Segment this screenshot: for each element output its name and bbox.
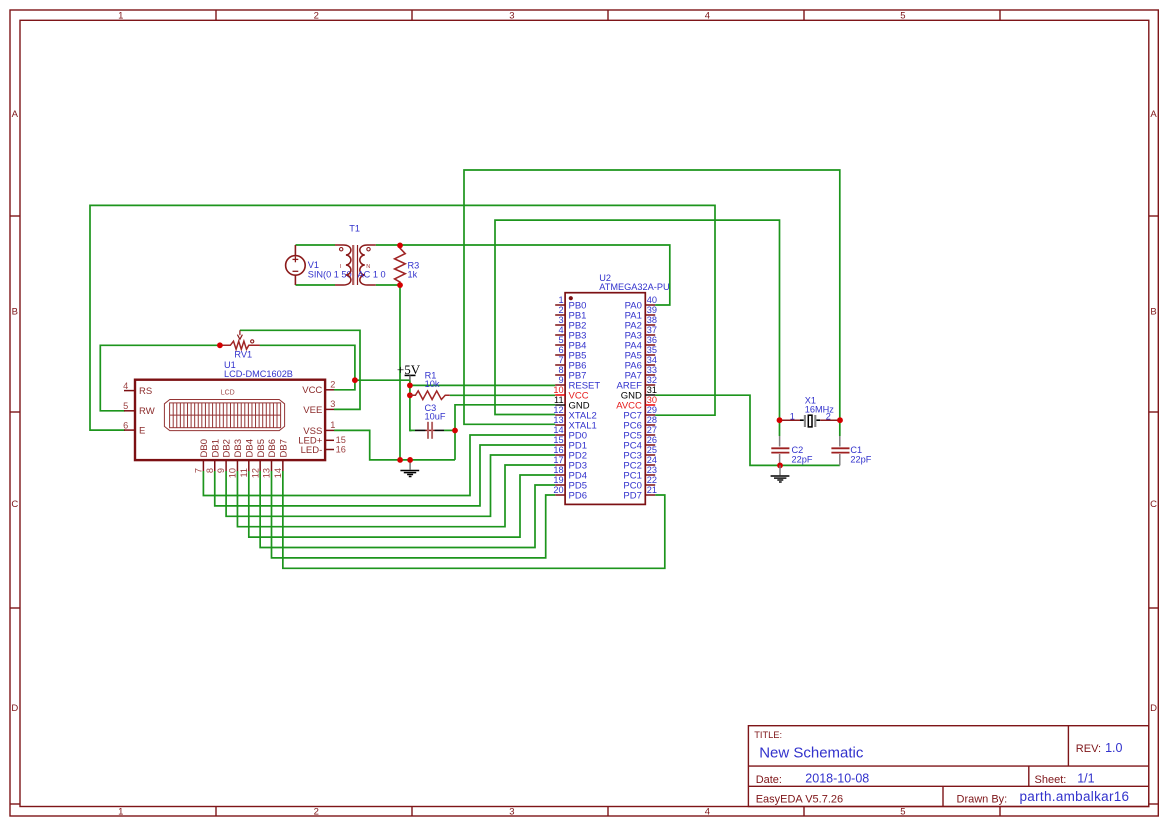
svg-text:13: 13 bbox=[553, 415, 563, 425]
voltage source V1 bbox=[286, 245, 306, 285]
U2 pin1 mark bbox=[569, 296, 573, 300]
U2 pin 38 PA2 bbox=[645, 324, 655, 326]
U2 pin 1 PB0 bbox=[555, 304, 565, 306]
U2 pin 40 PA0 bbox=[645, 304, 655, 306]
wire T1 secondary bottom to R3 bottom bbox=[376, 284, 400, 286]
wire V1 minus to T1 primary bottom bbox=[296, 284, 336, 286]
wire net DB1: U2 pin15 PD1 to LCD DB1 bbox=[215, 445, 555, 506]
U2 pin 3 PB2 bbox=[555, 324, 565, 326]
svg-text:7: 7 bbox=[194, 468, 204, 473]
U1 pin 9 DB2 bbox=[225, 460, 227, 471]
U2 pin 14 PD0 bbox=[555, 434, 565, 436]
svg-text:39: 39 bbox=[647, 305, 657, 315]
svg-text:1: 1 bbox=[118, 807, 123, 818]
U2 pin 6 PB5 bbox=[555, 354, 565, 356]
U2 pin 30 AVCC bbox=[645, 404, 655, 406]
svg-text:4: 4 bbox=[558, 325, 563, 335]
svg-text:4: 4 bbox=[123, 381, 128, 391]
svg-text:31: 31 bbox=[647, 385, 657, 395]
junction ground rail left bbox=[397, 457, 403, 463]
T1 core bbox=[352, 245, 354, 285]
svg-text:2: 2 bbox=[330, 380, 335, 390]
U2 pin 20 PD6 bbox=[555, 494, 565, 496]
junction +5V node bbox=[407, 383, 413, 389]
wire net XTAL2: U2 pin12 to crystal X1 pin1 / C2 top bbox=[495, 220, 780, 436]
svg-text:36: 36 bbox=[647, 335, 657, 345]
U1 pin 15 LED+ bbox=[325, 439, 334, 441]
capacitor C2 bbox=[779, 436, 781, 447]
svg-text:T1: T1 bbox=[349, 223, 360, 233]
svg-text:DB2: DB2 bbox=[222, 439, 233, 457]
svg-text:1/1: 1/1 bbox=[1077, 772, 1094, 786]
junction R3 bottom bbox=[397, 282, 403, 288]
U2 pin 39 PA1 bbox=[645, 314, 655, 316]
svg-text:13: 13 bbox=[262, 468, 272, 478]
svg-text:DB1: DB1 bbox=[210, 439, 221, 457]
svg-text:RV1: RV1 bbox=[234, 349, 252, 359]
svg-text:26: 26 bbox=[647, 435, 657, 445]
svg-text:DB6: DB6 bbox=[267, 439, 278, 457]
svg-text:E: E bbox=[139, 426, 145, 437]
svg-text:EasyEDA V5.7.26: EasyEDA V5.7.26 bbox=[756, 793, 843, 805]
svg-text:10k: 10k bbox=[425, 379, 440, 389]
U2 pin 27 PC5 bbox=[645, 434, 655, 436]
U2 pin 15 PD1 bbox=[555, 444, 565, 446]
wire net DB2: U2 pin16 PD2 to LCD DB2 bbox=[226, 455, 555, 516]
svg-text:27: 27 bbox=[647, 425, 657, 435]
svg-text:parth.ambalkar16: parth.ambalkar16 bbox=[1020, 789, 1130, 804]
svg-text:D: D bbox=[1150, 703, 1157, 714]
U1 pin 12 DB5 bbox=[259, 460, 261, 471]
svg-text:17: 17 bbox=[553, 455, 563, 465]
wire net DB5: U2 pin19 PD5 to LCD DB5 bbox=[260, 471, 555, 548]
svg-text:DB4: DB4 bbox=[244, 439, 255, 457]
svg-text:15: 15 bbox=[553, 435, 563, 445]
U1 pin 13 DB6 bbox=[271, 460, 273, 471]
crystal X1 bbox=[780, 419, 801, 421]
junction X1 pin2 bbox=[837, 417, 843, 423]
U2 pin 17 PD3 bbox=[555, 464, 565, 466]
svg-text:8: 8 bbox=[205, 468, 215, 473]
U2 pin 19 PD5 bbox=[555, 484, 565, 486]
svg-text:22: 22 bbox=[647, 475, 657, 485]
svg-text:20: 20 bbox=[553, 485, 563, 495]
U1 pin 2 VCC bbox=[325, 389, 334, 391]
svg-text:2: 2 bbox=[558, 305, 563, 315]
capacitor C1 bbox=[839, 436, 841, 447]
svg-text:30: 30 bbox=[647, 395, 657, 405]
U2 pin 28 PC6 bbox=[645, 424, 655, 426]
wire V1 plus to T1 primary top bbox=[296, 244, 336, 246]
wire net RESET: +5V node to U2 pin9 RESET bbox=[410, 384, 555, 386]
svg-text:AC 1 0: AC 1 0 bbox=[358, 269, 386, 279]
U1 pin 1 VSS bbox=[325, 429, 334, 431]
svg-text:29: 29 bbox=[647, 405, 657, 415]
svg-text:38: 38 bbox=[647, 315, 657, 325]
wire net VCC: RV1 terminal 2 down to LCD pin2 VCC bbox=[260, 345, 355, 390]
svg-text:9: 9 bbox=[558, 375, 563, 385]
wire net: R1 right to U2 pin10 VCC bbox=[450, 394, 555, 396]
svg-text:14: 14 bbox=[553, 425, 563, 435]
svg-text:1k: 1k bbox=[408, 270, 418, 280]
wire net PA0: T1 secondary top / R3 top to U2 pin40 PA0 bbox=[376, 245, 670, 305]
wire net DB0: U2 pin14 PD0 to LCD DB0 bbox=[203, 435, 555, 496]
svg-text:3: 3 bbox=[509, 11, 514, 22]
svg-text:11: 11 bbox=[554, 395, 564, 405]
U1 pin 14 DB7 bbox=[282, 460, 284, 471]
resistor R1 bbox=[410, 391, 450, 400]
U2 pin 25 PC3 bbox=[645, 454, 655, 456]
capacitor C3 bbox=[410, 429, 415, 431]
svg-text:D: D bbox=[11, 703, 18, 714]
svg-text:16: 16 bbox=[553, 445, 563, 455]
svg-text:22pF: 22pF bbox=[792, 455, 813, 465]
svg-text:RS: RS bbox=[139, 386, 152, 397]
svg-text:C: C bbox=[11, 499, 18, 510]
ground symbol near C2 bbox=[771, 465, 790, 482]
svg-text:DB7: DB7 bbox=[278, 439, 289, 457]
U2 pin 22 PC0 bbox=[645, 484, 655, 486]
svg-text:40: 40 bbox=[647, 295, 657, 305]
U2 pin 13 XTAL1 bbox=[555, 424, 565, 426]
junction R3 top bbox=[397, 243, 403, 249]
resistor R3 bbox=[395, 245, 406, 285]
U1 pin 4 RS bbox=[124, 390, 135, 392]
U2 pin 37 PA3 bbox=[645, 334, 655, 336]
svg-text:B: B bbox=[12, 306, 18, 317]
U2 pin 12 XTAL2 bbox=[555, 414, 565, 416]
svg-text:32: 32 bbox=[647, 375, 657, 385]
U2 pin 16 PD2 bbox=[555, 454, 565, 456]
transformer T1 bbox=[335, 245, 376, 285]
svg-text:28: 28 bbox=[647, 415, 657, 425]
svg-text:TITLE:: TITLE: bbox=[754, 730, 782, 740]
svg-text:19: 19 bbox=[553, 475, 563, 485]
svg-text:18: 18 bbox=[553, 465, 563, 475]
U1 display graphic bbox=[164, 400, 284, 431]
svg-text:11: 11 bbox=[239, 468, 249, 478]
svg-text:A: A bbox=[1150, 109, 1157, 120]
svg-text:4: 4 bbox=[705, 807, 710, 818]
svg-text:37: 37 bbox=[647, 325, 657, 335]
U2 pin 26 PC4 bbox=[645, 444, 655, 446]
svg-text:6: 6 bbox=[123, 420, 128, 430]
svg-text:Date:: Date: bbox=[756, 774, 782, 786]
U2 pin 10 VCC bbox=[555, 394, 565, 396]
junction X1 pin1 bbox=[777, 417, 783, 423]
svg-text:2: 2 bbox=[826, 411, 831, 421]
svg-text:A: A bbox=[12, 109, 19, 120]
svg-text:10uF: 10uF bbox=[425, 411, 446, 421]
wire net GND: U2 pin31 GND to C2/C1 bottoms and ground bbox=[655, 395, 840, 465]
wire net RW/RV1: LCD pin5 RW to RV1 terminal 1 bbox=[100, 345, 220, 411]
U1 pin 11 DB4 bbox=[248, 460, 250, 471]
svg-text:3: 3 bbox=[330, 399, 335, 409]
wire net DB4: U2 pin18 PD4 to LCD DB4 bbox=[249, 471, 555, 537]
LCD module U1 body bbox=[135, 380, 325, 460]
svg-text:12: 12 bbox=[250, 468, 260, 478]
U2 pin 8 PB7 bbox=[555, 374, 565, 376]
svg-text:New Schematic: New Schematic bbox=[759, 744, 864, 761]
svg-text:9: 9 bbox=[216, 468, 226, 473]
svg-text:12: 12 bbox=[553, 405, 563, 415]
wire net DB3: U2 pin17 PD3 to LCD DB3 bbox=[237, 465, 555, 527]
svg-text:25: 25 bbox=[647, 445, 657, 455]
svg-text:ATMEGA32A-PU: ATMEGA32A-PU bbox=[599, 282, 669, 292]
wire net XTAL1: U2 pin13 to crystal X1 pin2 / C1 top bbox=[464, 170, 840, 436]
svg-text:2: 2 bbox=[314, 11, 319, 22]
U2 pin 34 PA6 bbox=[645, 364, 655, 366]
title block bbox=[748, 726, 1148, 807]
wire net GND: R3 bottom / T1 secondary bottom down to ground rail bbox=[399, 285, 401, 460]
U1 pin 8 DB1 bbox=[214, 460, 216, 471]
svg-text:B: B bbox=[1150, 306, 1156, 317]
svg-text:2: 2 bbox=[314, 807, 319, 818]
svg-text:10: 10 bbox=[228, 468, 238, 478]
U2 pin 11 GND bbox=[555, 404, 565, 406]
svg-text:1: 1 bbox=[790, 411, 795, 421]
svg-text:DB0: DB0 bbox=[199, 439, 210, 457]
svg-text:C: C bbox=[1150, 499, 1157, 510]
U2 pin 33 PA7 bbox=[645, 374, 655, 376]
U1 pin 7 DB0 bbox=[202, 460, 204, 471]
svg-text:LED-: LED- bbox=[301, 445, 323, 456]
U2 pin 35 PA5 bbox=[645, 354, 655, 356]
junction C2 bottom bbox=[777, 463, 783, 469]
svg-text:16: 16 bbox=[336, 444, 346, 454]
svg-text:33: 33 bbox=[647, 365, 657, 375]
svg-text:5: 5 bbox=[900, 11, 905, 22]
svg-text:LCD-DMC1602B: LCD-DMC1602B bbox=[224, 369, 293, 379]
svg-text:8: 8 bbox=[558, 365, 563, 375]
svg-text:6: 6 bbox=[558, 345, 563, 355]
wire net DB6: U2 pin20 PD6 to LCD DB6 bbox=[272, 471, 556, 558]
wire net DB7: U2 pin21 PD7 to LCD DB7 bbox=[283, 471, 665, 568]
wire net E/PC7: LCD pin6 E to U2 pin29 PC7 bbox=[90, 205, 715, 430]
U2 pin 29 PC7 bbox=[645, 414, 655, 416]
wire net GND: U2 pin11 GND down through C3 right junction to ground rail bbox=[455, 405, 555, 460]
svg-text:1.0: 1.0 bbox=[1105, 741, 1122, 755]
U2 pin 36 PA4 bbox=[645, 344, 655, 346]
svg-text:REV:: REV: bbox=[1076, 743, 1101, 755]
svg-text:5: 5 bbox=[558, 335, 563, 345]
svg-text:LCD: LCD bbox=[221, 389, 235, 396]
svg-text:14: 14 bbox=[273, 468, 283, 478]
svg-text:4: 4 bbox=[705, 11, 710, 22]
svg-text:PD6: PD6 bbox=[569, 490, 587, 501]
svg-text:24: 24 bbox=[647, 455, 657, 465]
wire branch VCC node to +5V flag bbox=[355, 379, 410, 381]
potentiometer RV1 bbox=[220, 341, 260, 349]
U2 pin 31 GND bbox=[645, 394, 655, 396]
svg-text:VEE: VEE bbox=[303, 405, 322, 416]
svg-text:2018-10-08: 2018-10-08 bbox=[805, 772, 869, 786]
U2 pin 5 PB4 bbox=[555, 344, 565, 346]
U2 pin 32 AREF bbox=[645, 384, 655, 386]
svg-text:3: 3 bbox=[558, 315, 563, 325]
svg-text:DB5: DB5 bbox=[256, 439, 267, 457]
wire +5V node vertical to C3 left lead bbox=[410, 380, 412, 430]
U2 pin 7 PB6 bbox=[555, 364, 565, 366]
svg-text:Sheet:: Sheet: bbox=[1035, 774, 1067, 786]
svg-text:10: 10 bbox=[553, 385, 563, 395]
U1 pin 6 E bbox=[124, 429, 135, 431]
svg-text:35: 35 bbox=[647, 345, 657, 355]
svg-text:1: 1 bbox=[118, 11, 123, 22]
svg-text:3: 3 bbox=[509, 807, 514, 818]
U1 pin 16 LED- bbox=[325, 449, 334, 451]
svg-text:RW: RW bbox=[139, 406, 155, 417]
svg-text:1: 1 bbox=[558, 295, 563, 305]
U2 pin 24 PC2 bbox=[645, 464, 655, 466]
svg-text:22pF: 22pF bbox=[850, 455, 871, 465]
U2 pin 4 PB3 bbox=[555, 334, 565, 336]
U2 pin 18 PD4 bbox=[555, 474, 565, 476]
junction RV1 left bbox=[217, 342, 223, 348]
svg-text:34: 34 bbox=[647, 355, 657, 365]
U2 pin 9 RESET bbox=[555, 384, 565, 386]
junction ground rail right bbox=[407, 457, 413, 463]
U2 pin 21 PD7 bbox=[645, 494, 655, 496]
svg-text:PD7: PD7 bbox=[623, 490, 641, 501]
U1 pin 5 RW bbox=[124, 410, 135, 412]
svg-text:23: 23 bbox=[647, 465, 657, 475]
junction VCC branch bbox=[352, 377, 358, 383]
IC U2 body bbox=[565, 293, 645, 505]
junction R1 left bbox=[407, 392, 413, 398]
svg-text:Drawn By:: Drawn By: bbox=[957, 793, 1008, 805]
junction C3 right bbox=[452, 428, 458, 434]
U1 pin 10 DB3 bbox=[236, 460, 238, 471]
svg-text:5: 5 bbox=[900, 807, 905, 818]
svg-text:21: 21 bbox=[647, 485, 657, 495]
svg-text:VCC: VCC bbox=[302, 385, 322, 396]
wire net VEE: RV1 wiper to LCD pin3 VEE bbox=[240, 330, 360, 409]
RV1 wiper arrow bbox=[237, 330, 242, 339]
U2 pin 2 PB1 bbox=[555, 314, 565, 316]
svg-text:7: 7 bbox=[558, 355, 563, 365]
svg-text:DB3: DB3 bbox=[233, 439, 244, 457]
wire net GND: LCD pin1 VSS to ground rail bbox=[334, 430, 455, 460]
U2 pin 23 PC1 bbox=[645, 474, 655, 476]
T1 polarity dots bbox=[340, 248, 343, 251]
svg-text:1: 1 bbox=[330, 420, 335, 430]
svg-text:5: 5 bbox=[123, 401, 128, 411]
ground symbol near C3 bbox=[400, 460, 419, 477]
U1 pin 3 VEE bbox=[325, 408, 334, 410]
